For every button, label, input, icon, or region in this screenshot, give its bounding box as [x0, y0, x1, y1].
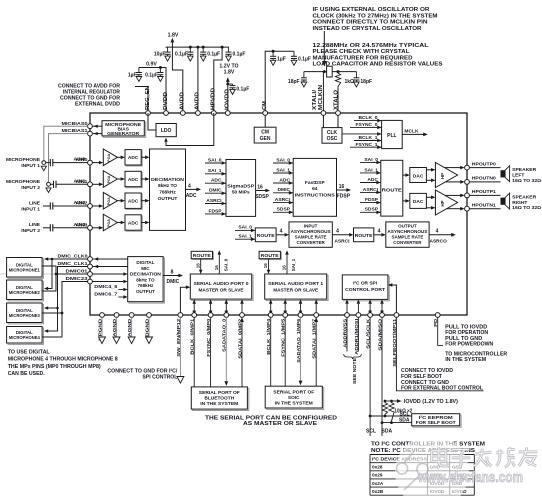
watermark CJK text (vector strokes) [432, 447, 449, 466]
adc ADC2 [126, 194, 142, 209]
wire ADC2 to decimator [141, 200, 145, 202]
wire route to output asrc [374, 234, 382, 236]
wire DAC1 to HP1 a [426, 196, 431, 198]
svg-text:8: 8 [171, 269, 174, 275]
svg-text:AVDD: AVDD [180, 91, 186, 110]
svg-text:DMIC4_5: DMIC4_5 [94, 284, 117, 290]
wire DAC0 to HP0 a [426, 169, 431, 171]
wire PGA2 to ADC2 [117, 200, 120, 202]
svg-text:ASRCI: ASRCI [206, 198, 222, 204]
wire HP1 to HPOUTN1 [446, 208, 460, 210]
wire SCL external [369, 317, 371, 436]
block serial port of bluetooth [193, 388, 249, 410]
crystal Y1 [327, 66, 333, 77]
pin PD [435, 313, 440, 318]
svg-text:DMIC: DMIC [167, 279, 180, 285]
capacitor 0.1uF AVDD b [202, 47, 204, 52]
ground AGND2 [131, 317, 133, 337]
capacitor 0.1uF AVDD a [189, 47, 191, 52]
svg-text:SDSP: SDSP [277, 207, 291, 213]
svg-text:MICROPHONE: MICROPHONE [6, 157, 41, 163]
ground AGND1 [116, 317, 118, 337]
capacitor 1uF DVDD [138, 68, 140, 73]
block route SAP0 [192, 252, 213, 259]
svg-text:PGA: PGA [107, 219, 111, 227]
wire SAP0 serial signal [210, 304, 212, 311]
wire CM pin to CM GEN [264, 115, 266, 127]
capacitor 18pF left [303, 72, 305, 78]
capacitor 10uF AVDD [167, 47, 169, 52]
svg-text:DECIMATION: DECIMATION [130, 272, 162, 277]
svg-text:PGA: PGA [107, 197, 111, 205]
block PLL [382, 120, 403, 148]
svg-text:MICROPHONE1: MICROPHONE1 [9, 267, 41, 272]
svg-text:MICROPHONE4: MICROPHONE4 [9, 335, 41, 340]
svg-text:FSYNC_0/MP0: FSYNC_0/MP0 [206, 318, 212, 356]
pin AVDD [180, 111, 185, 116]
svg-text:SAMPLE RATE: SAMPLE RATE [295, 234, 327, 239]
wire SDA external [381, 317, 383, 436]
capacitor 0.1uF DVDD [159, 68, 161, 73]
svg-text:MIC: MIC [141, 266, 150, 271]
pin REG_EN [146, 111, 151, 116]
svg-text:ROUTE: ROUTE [261, 253, 279, 258]
wire SDSP output [256, 190, 266, 192]
wire IOVDD pullup rail [385, 400, 394, 402]
table i2c addresses [370, 455, 474, 496]
wire AIN3 to PGA3 [92, 227, 99, 229]
pin FSYNC_0/MP0 [208, 313, 213, 318]
wire HPOUTP1 to speaker [469, 194, 500, 196]
svg-text:PLEASE CHECK WITH CRYSTAL: PLEASE CHECK WITH CRYSTAL [313, 49, 411, 55]
wire XTALI to crystal [322, 72, 324, 113]
svg-text:768kHz: 768kHz [159, 190, 176, 196]
svg-text:0.1µF: 0.1µF [236, 87, 249, 93]
svg-text:I²C EEPROM: I²C EEPROM [419, 415, 453, 421]
block control port [344, 276, 390, 301]
svg-text:SAI_0: SAI_0 [276, 157, 290, 163]
pin SDATAI_0/MP2 [240, 313, 245, 318]
svg-text:SOIC: SOIC [288, 395, 300, 401]
block ADC decimator [150, 149, 186, 230]
resistor pullup SDA [389, 401, 394, 423]
svg-text:GEN: GEN [260, 136, 271, 142]
wire AIN0 [53, 162, 88, 164]
svg-text:LINE: LINE [29, 201, 41, 207]
dac DAC0 [410, 168, 427, 183]
svg-text:8kHz TO: 8kHz TO [136, 277, 155, 282]
wire 0.9V rail [139, 68, 166, 114]
svg-text:LDO: LDO [161, 128, 172, 134]
wire route to SAP1 [268, 259, 270, 270]
svg-text:SERIAL AUDIO PORT 1: SERIAL AUDIO PORT 1 [268, 281, 323, 287]
resistor 1k XTALO [335, 72, 340, 88]
wire DMIC23 internal [92, 281, 123, 283]
svg-text:SCL: SCL [400, 411, 410, 417]
wire MICBIAS1 external [49, 134, 88, 183]
amplifier PGA1 [103, 171, 117, 188]
svg-text:HP: HP [440, 200, 445, 206]
pin DMIC_CLK0 [88, 257, 93, 262]
block SigmaDSP [226, 160, 256, 217]
pin SDA/MISO [380, 313, 385, 318]
svg-text:ASYNCHRONOUS: ASYNCHRONOUS [291, 229, 331, 234]
pin XTALI/MCLKIN [321, 111, 326, 116]
svg-text:ASRCI: ASRCI [363, 187, 379, 193]
svg-text:SDSP: SDSP [255, 194, 269, 200]
wire SDATAI_1 into SAP1 [315, 304, 317, 315]
capacitor 18pF right [355, 72, 357, 78]
svg-text:PGA: PGA [107, 175, 111, 183]
svg-text:DVDD: DVDD [163, 92, 169, 110]
svg-text:16: 16 [257, 184, 263, 190]
ground SW_EN [179, 317, 181, 376]
wire 1.8V rail [166, 46, 229, 48]
wire rail to AVDD pin1 [172, 47, 182, 113]
block microphone bias generator [103, 122, 145, 137]
pin BCLK_1/MP4 [268, 313, 273, 318]
svg-text:HPVDD: HPVDD [211, 88, 217, 110]
pin MICBIAS0 [88, 124, 93, 129]
wire SW_EN to SAP0 [180, 287, 186, 312]
block route SAP1 [260, 252, 281, 259]
svg-text:RIGHT: RIGHT [512, 200, 527, 206]
svg-text:ROUTE: ROUTE [382, 188, 403, 194]
capacitor AIN0 input [46, 162, 51, 164]
capacitor AIN3 input [43, 227, 50, 229]
svg-text:INSTEAD OF CRYSTAL OSCILLATOR: INSTEAD OF CRYSTAL OSCILLATOR [313, 26, 422, 32]
svg-text:AS MASTER OR SLAVE: AS MASTER OR SLAVE [243, 421, 317, 427]
svg-text:I²C OR SPI: I²C OR SPI [353, 280, 378, 286]
wire SADATAO_0 to bluetooth [225, 317, 227, 381]
svg-text:16: 16 [263, 263, 268, 269]
svg-text:SAI_1: SAI_1 [238, 234, 252, 240]
block CLK OSC [322, 128, 342, 144]
svg-text:0x29: 0x29 [372, 473, 383, 478]
svg-text:HPOUTP0: HPOUTP0 [472, 161, 496, 167]
wire CM to caps [265, 51, 294, 113]
IC body (codec chip boundary) [90, 113, 467, 315]
svg-text:FDSP: FDSP [337, 194, 351, 200]
svg-text:0x28: 0x28 [372, 465, 383, 470]
svg-text:SAI_0: SAI_0 [364, 157, 378, 163]
wire DAC1 to HP1 b [426, 207, 431, 209]
svg-text:16: 16 [282, 265, 287, 271]
svg-text:XTALI/: XTALI/ [312, 89, 318, 110]
adc ADC1 [126, 172, 142, 187]
adc ADC3 [126, 216, 142, 231]
svg-text:DIGITAL: DIGITAL [136, 260, 154, 265]
svg-text:0.1µF: 0.1µF [298, 56, 311, 62]
wire ADC0 to decimator [141, 156, 145, 158]
svg-text:IN THE SYSTEM: IN THE SYSTEM [445, 357, 486, 363]
svg-text:INPUT 1: INPUT 1 [21, 207, 40, 213]
wire AIN1 to PGA1 [92, 183, 99, 185]
svg-text:SAI_1: SAI_1 [291, 258, 296, 271]
wire ADC bus to SigmaDSP [186, 188, 197, 190]
svg-text:1.2V TO: 1.2V TO [219, 63, 238, 69]
svg-text:ASYNCHRONOUS: ASYNCHRONOUS [387, 229, 427, 234]
svg-text:CONVERTER: CONVERTER [393, 240, 422, 245]
pin HPOUTP0 [465, 165, 470, 170]
wire note to crystal [323, 31, 325, 61]
svg-text:IOVDD (1.2V TO 1.8V): IOVDD (1.2V TO 1.8V) [404, 399, 458, 405]
pin AGND [114, 313, 119, 318]
pin AIN2 [88, 204, 93, 209]
svg-text:DAC: DAC [413, 199, 424, 205]
svg-text:0x2A: 0x2A [372, 481, 384, 486]
svg-text:MICROPHONE2: MICROPHONE2 [9, 290, 41, 295]
pin HPOUTN0 [465, 180, 470, 185]
svg-text:1.8V: 1.8V [168, 33, 179, 39]
wire FSYNC_1 to soc [284, 317, 286, 386]
wire HPOUTN0 to speaker [469, 181, 500, 183]
wire IOVDD arrow [227, 81, 229, 113]
svg-text:CONTROL PORT: CONTROL PORT [345, 287, 385, 293]
wire SDATAI_0 into SAP0 [241, 304, 243, 315]
svg-text:16: 16 [214, 265, 219, 271]
svg-text:FSYNC_1/MP5: FSYNC_1/MP5 [281, 318, 287, 356]
block output router ROUTE [381, 160, 403, 216]
block serial audio port 1 [266, 275, 328, 300]
svg-text:LINE: LINE [29, 222, 41, 228]
svg-text:CLK: CLK [327, 130, 338, 136]
wire HPVDD to LDO [166, 113, 214, 146]
svg-text:SEE NOTE: SEE NOTE [352, 357, 358, 384]
wire ADC3 to decimator [141, 222, 145, 224]
svg-text:EXTERNAL DVDD: EXTERNAL DVDD [75, 101, 120, 107]
svg-text:FOR POWERDOWN: FOR POWERDOWN [445, 342, 493, 348]
svg-text:4: 4 [280, 229, 283, 235]
svg-text:SDA: SDA [382, 428, 393, 434]
wire SCL to EEPROM [370, 415, 412, 417]
wire route to SAP0 [200, 259, 202, 270]
svg-text:HPOUTP1: HPOUTP1 [472, 189, 496, 195]
svg-text:16Ω TO 32Ω: 16Ω TO 32Ω [512, 178, 541, 184]
svg-text:SDA/MISO: SDA/MISO [377, 319, 383, 351]
svg-text:ADC: ADC [211, 178, 222, 184]
wire router to DAC1 [403, 200, 406, 202]
wire PGA0 to ADC0 [117, 156, 120, 158]
svg-text:0.1µF: 0.1µF [145, 72, 158, 78]
svg-text:ADC: ADC [128, 177, 139, 183]
svg-text:INPUT 1: INPUT 1 [21, 163, 40, 169]
svg-text:SERIAL AUDIO PORT 0: SERIAL AUDIO PORT 0 [194, 281, 249, 287]
svg-text:SAI_1: SAI_1 [276, 167, 290, 173]
svg-text:16: 16 [195, 263, 200, 269]
wire SAP1 serial signal [300, 304, 302, 311]
svg-text:SADATAO_0: SADATAO_0 [222, 318, 228, 351]
svg-text:DECIMATION: DECIMATION [151, 177, 185, 183]
pin DGND [147, 313, 152, 318]
svg-text:4: 4 [188, 183, 191, 189]
svg-text:FastDSP: FastDSP [305, 180, 326, 186]
block route asrc-out [354, 228, 374, 242]
pin CM [263, 111, 268, 116]
svg-text:LEFT: LEFT [512, 172, 524, 178]
wire SAP1 serial signal [270, 304, 272, 311]
svg-text:ADC: ADC [128, 155, 139, 161]
wire AIN3 [53, 227, 88, 229]
wire BCLK_0 to bluetooth [193, 317, 195, 387]
block digital microphone 3 [8, 304, 44, 324]
svg-text:0x2B: 0x2B [372, 489, 384, 494]
svg-text:CM: CM [262, 101, 268, 110]
wire SAP0 to SAI_0 bus [218, 255, 220, 274]
svg-text:SCL: SCL [366, 428, 376, 434]
pin HPOUTN1 [465, 206, 470, 211]
wire PD external [438, 317, 443, 345]
svg-text:BCLK_1/MP4: BCLK_1/MP4 [266, 318, 272, 354]
svg-text:INSTRUCTIONS: INSTRUCTIONS [295, 192, 336, 198]
wire DMIC_CLK0 internal [96, 258, 128, 260]
pin AGND [129, 313, 134, 318]
svg-text:16Ω TO 32Ω: 16Ω TO 32Ω [512, 205, 541, 211]
pin BCLK_0/MP1 [192, 313, 197, 318]
pin SADATAO_1/MP6 [298, 313, 303, 318]
wire SDATAI_0 from bluetooth [241, 318, 243, 387]
svg-text:DAC: DAC [413, 173, 424, 179]
svg-text:0.1µF: 0.1µF [175, 51, 188, 57]
wire HP0 to HPOUTP0 [445, 167, 461, 169]
svg-text:ADC: ADC [128, 220, 139, 226]
svg-text:ROUTE: ROUTE [257, 233, 275, 238]
wire ADDR1 into port [357, 304, 359, 315]
ground DGND [148, 317, 150, 337]
block digital microphone 2 [8, 281, 44, 301]
amplifier PGA0 [103, 149, 117, 166]
pin AIN3 [88, 225, 93, 230]
svg-text:SPEAKER: SPEAKER [512, 167, 536, 173]
wire BCLK_1 to soc [270, 317, 272, 386]
wire REG_EN to note [135, 87, 148, 114]
pin IOVDD [225, 111, 230, 116]
pin AIN1 [88, 182, 93, 187]
svg-text:SCL/SCLK: SCL/SCLK [366, 318, 372, 349]
wire DMIC_CLK0 to mic1 and mic2 [46, 258, 88, 260]
svg-text:OUTPUT: OUTPUT [136, 289, 155, 294]
svg-text:FOR SELF BOOT: FOR SELF BOOT [416, 420, 456, 426]
svg-text:10µF: 10µF [154, 51, 166, 57]
svg-text:SAI_0: SAI_0 [208, 157, 222, 163]
svg-text:SADATAO_1/MP6: SADATAO_1/MP6 [296, 318, 302, 362]
svg-text:GENERATOR: GENERATOR [107, 131, 140, 137]
wire DMIC01 internal [92, 273, 123, 275]
amplifier HP1 [435, 190, 457, 215]
wire SELFBOOT external [396, 317, 483, 390]
amplifier PGA2 [103, 192, 117, 209]
block output ASRC [386, 222, 429, 247]
ground HPGND [101, 317, 103, 337]
svg-text:12.288MHz OR 24.576MHz TYPICAL: 12.288MHz OR 24.576MHz TYPICAL [313, 43, 430, 49]
svg-text:4: 4 [336, 229, 339, 235]
svg-text:AVDD: AVDD [195, 91, 201, 110]
gray artifact stripe [0, 273, 90, 275]
svg-text:INPUT 2: INPUT 2 [21, 185, 40, 191]
svg-text:REG_EN: REG_EN [145, 86, 151, 110]
wire 1.8V arrow [171, 42, 173, 48]
svg-text:MASTER OR SLAVE: MASTER OR SLAVE [273, 288, 319, 294]
svg-text:XTALO: XTALO [333, 90, 339, 110]
block route asrc-in [255, 228, 276, 242]
block serial audio port 0 [192, 275, 253, 300]
wire SAP1 to SAI_1 bus [286, 255, 288, 274]
wire ADDR0 into port [346, 304, 348, 315]
wire HPOUTP0 to speaker [469, 167, 500, 169]
svg-text:18pF: 18pF [288, 79, 300, 85]
pin FSYNC_1/MP5 [283, 313, 288, 318]
svg-text:SELFBOOT/MP11: SELFBOOT/MP11 [392, 318, 398, 366]
svg-text:SW_EN/MP12: SW_EN/MP12 [176, 318, 182, 356]
wire mic1 mic2 data DMIC01 [42, 266, 56, 291]
capacitor AIN1 input [50, 183, 53, 185]
pin DMIC01 [88, 272, 93, 277]
svg-text:AGND: AGND [127, 318, 133, 337]
svg-text:SigmaDSP: SigmaDSP [227, 183, 255, 189]
wire XTALI to OSC [322, 115, 324, 127]
svg-text:MICROPHONE 4 THROUGH MICROPHON: MICROPHONE 4 THROUGH MICROPHONE 8 [8, 357, 118, 363]
resistor pullup SCL [382, 401, 387, 416]
svg-text:OUTPUT: OUTPUT [158, 196, 178, 202]
wire SAP0 serial signal [193, 304, 195, 311]
wire HP1 to HPOUTP1 [445, 194, 461, 196]
svg-text:MCLKIN: MCLKIN [318, 85, 324, 110]
svg-text:0.1µF: 0.1µF [233, 51, 246, 57]
pin MICBIAS1 [88, 131, 93, 136]
wire AIN2 to PGA2 [92, 205, 99, 207]
svg-text:BCLK_0/MP1: BCLK_0/MP1 [190, 318, 196, 354]
svg-text:64: 64 [312, 186, 318, 192]
wire router to DAC0 [403, 174, 406, 176]
wire ASRCI bus [332, 234, 349, 236]
svg-text:SAMPLE RATE: SAMPLE RATE [391, 234, 423, 239]
svg-text:MANUFACTURER FOR REQUIRED: MANUFACTURER FOR REQUIRED [313, 55, 413, 61]
wire SCL into port [369, 304, 371, 311]
wire SAP0 serial signal [225, 304, 227, 311]
svg-text:ADDR1/MOSI: ADDR1/MOSI [354, 318, 360, 355]
svg-text:SERIAL PORT OF: SERIAL PORT OF [199, 390, 240, 396]
svg-text:PLL: PLL [387, 133, 396, 139]
svg-text:IF USING EXTERNAL OSCILLATOR O: IF USING EXTERNAL OSCILLATOR OR [313, 7, 430, 13]
svg-text:INPUT: INPUT [304, 223, 318, 228]
adc ADC0 [126, 151, 142, 166]
svg-text:HPOUTN1: HPOUTN1 [472, 203, 496, 209]
wire SDA into port [381, 304, 383, 311]
block digital microphone 1 [8, 259, 44, 279]
wire HPOUTN1 to speaker [469, 208, 500, 210]
svg-text:ASRCI: ASRCI [275, 197, 291, 203]
svg-text:ASRCO: ASRCO [430, 238, 448, 244]
wire SAP1 serial signal [284, 304, 286, 311]
svg-text:768kHz: 768kHz [137, 283, 154, 288]
svg-text:IOVDD: IOVDD [225, 88, 231, 110]
pin DVDD [164, 111, 169, 116]
svg-text:FDSP: FDSP [208, 208, 222, 214]
block LDO regulator [156, 124, 176, 137]
svg-text:AIN3: AIN3 [74, 222, 86, 228]
svg-text:PD: PD [433, 318, 439, 327]
svg-text:DMIC: DMIC [209, 188, 222, 194]
wire DMIC_CLK1 to mic3 and mic4 [46, 267, 88, 332]
svg-text:1kΩ: 1kΩ [345, 79, 355, 85]
wire PGA3 to ADC3 [117, 222, 120, 224]
pin ADDR0/SS [345, 313, 350, 318]
brace see note [344, 354, 362, 359]
wire FDSP output [337, 189, 347, 191]
pin SELFBOOT/MP11 [394, 313, 399, 318]
capacitor AIN2 input [43, 205, 50, 207]
svg-text:18pF: 18pF [360, 79, 372, 85]
